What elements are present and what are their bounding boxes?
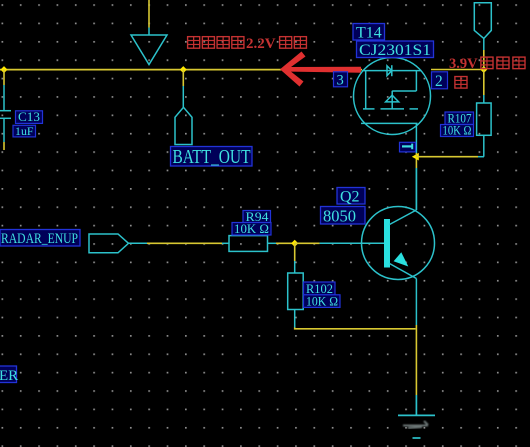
wire: BATT_OUT branch (182, 70, 184, 86)
pin 2 label (432, 72, 448, 90)
svg-text:2.2V: 2.2V (246, 36, 276, 52)
substrate arrow (386, 95, 399, 102)
svg-text:10K Ω: 10K Ω (306, 294, 338, 308)
label R94 (243, 210, 271, 224)
label R107 value 10K ohm (441, 124, 474, 138)
top rail (362, 70, 422, 72)
label BATT_OUT (171, 147, 253, 169)
node: base junction (291, 240, 298, 247)
wire: port to R94 (147, 242, 222, 244)
body diode triangle (387, 66, 392, 76)
wire: main output rail (0, 69, 362, 71)
wire: C13 lower stub (3, 142, 5, 150)
gate plate line (361, 122, 418, 124)
label R102 value 10K ohm (304, 294, 341, 308)
resistor R94 (222, 236, 276, 252)
wire: junction down to R107 (483, 70, 485, 96)
svg-text:T14: T14 (356, 25, 382, 42)
wire: MOSFET source to input (431, 69, 484, 71)
red arrow annotation (280, 52, 361, 87)
label ER (clipped net label) (0, 366, 18, 384)
MOSFET T14 (354, 58, 431, 154)
label CJ2301S1 (357, 41, 434, 59)
wire: collector lower cyan (already above) (415, 168, 417, 210)
svg-text:3.9V: 3.9V (449, 56, 478, 72)
wire: R94 to base junction (276, 242, 295, 244)
wire: C13 branch (3, 70, 5, 85)
wire: gate pin yellow stub (415, 153, 417, 157)
ground (398, 395, 435, 438)
drain horizontal (392, 90, 416, 92)
label T14 (353, 24, 385, 42)
wire: emitter down to ground (415, 325, 417, 395)
pin 3 label (334, 72, 348, 89)
svg-text:Q2: Q2 (340, 189, 360, 206)
svg-text:3: 3 (337, 73, 344, 89)
pin 1 label (rotated) (400, 142, 416, 152)
node: junction MOSFET gate / R107 (412, 153, 419, 161)
port BATT_OUT (175, 86, 192, 145)
Q2 emitter (390, 264, 417, 326)
Q2 collector (390, 168, 417, 225)
capacitor C13 (0, 85, 11, 142)
label R107 (445, 112, 474, 126)
wire: R102 bottom to emitter line (295, 328, 416, 329)
svg-text:10K Ω: 10K Ω (443, 124, 472, 138)
transistor Q2 (362, 207, 435, 280)
channel segments (363, 108, 375, 110)
svg-text:CJ2301S1: CJ2301S1 (359, 42, 431, 59)
port 3.9V input (474, 3, 491, 50)
node: junction input (480, 66, 487, 73)
label 1uF (13, 124, 36, 138)
wire: junction to Q2 base (295, 242, 320, 244)
resistor R102 (288, 261, 304, 328)
wire: junction down to R102 (294, 243, 296, 261)
Q2 emitter arrow (394, 252, 409, 266)
power symbol (triangle power port) (131, 28, 167, 65)
svg-text:2: 2 (435, 73, 443, 90)
wire: junction to R107 bottom (416, 156, 478, 158)
port RADAR_ENUP (89, 234, 147, 253)
right vertical (drain leg) (415, 71, 417, 91)
red annotation text: 输出实测2.2V左右 (188, 37, 244, 49)
label 8050 (321, 206, 366, 225)
label Q2 (337, 188, 365, 206)
Q2 base bar (384, 219, 390, 268)
svg-text:RADAR_ENUP: RADAR_ENUP (1, 231, 78, 247)
substrate stem (391, 91, 393, 109)
svg-text:1uF: 1uF (15, 124, 34, 138)
wire: port down to junction (483, 50, 485, 70)
node: junction rail / BATT_OUT (180, 66, 187, 73)
gate pin down (415, 123, 417, 153)
body diode bar (391, 65, 393, 76)
node: junction left rail / C13 (0, 66, 7, 73)
svg-text:8050: 8050 (323, 206, 356, 225)
wire: top vertical feed to power symbol (148, 0, 150, 28)
label C13 (16, 110, 43, 124)
label RADAR_ENUP (0, 230, 80, 248)
label R102 (304, 282, 336, 296)
left vertical (source leg) (365, 71, 367, 109)
svg-text:10K Ω: 10K Ω (234, 222, 269, 236)
ground middle bar (blurred) (403, 421, 428, 428)
svg-text:ER: ER (0, 368, 18, 384)
resistor R107 (477, 95, 492, 157)
svg-text:BATT_OUT: BATT_OUT (173, 147, 251, 168)
label R94 value 10K ohm (232, 222, 271, 236)
svg-text:C13: C13 (18, 110, 40, 124)
wire: collector up to gate junction (415, 157, 417, 168)
